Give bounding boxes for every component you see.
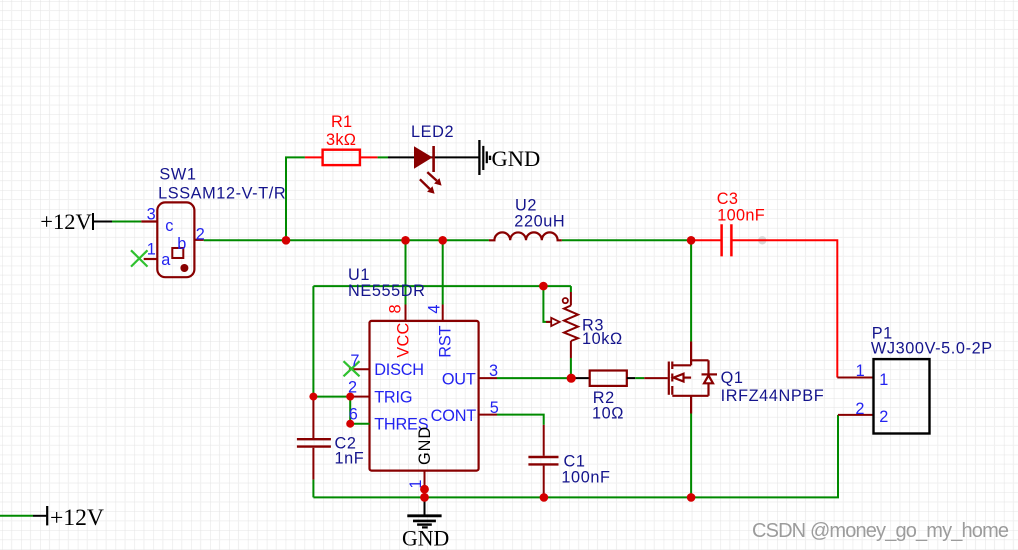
wire Q1 source to bottom bus <box>690 414 692 498</box>
net port +12V (top-left) bar <box>92 213 94 230</box>
wire green to SW1 pin 3 <box>112 221 141 223</box>
no-connect X on U1 pin 7 <box>344 361 360 376</box>
capacitor C1 <box>528 457 558 464</box>
svg-text:1nF: 1nF <box>335 450 365 468</box>
junction node at Q1 drain riser <box>687 236 696 245</box>
U1 pin 7 DISCH stub <box>349 368 370 370</box>
net port +12V (bottom-left) bar <box>46 506 48 525</box>
wire black from +12V port <box>92 221 112 223</box>
ground GND (right of LED, vertical-bar style) <box>479 140 490 175</box>
svg-text:2: 2 <box>855 400 864 418</box>
connector P1 body <box>874 359 930 433</box>
wire black into R2 <box>576 377 590 379</box>
junction node at OUT / R3 bottom <box>567 374 576 383</box>
svg-text:100nF: 100nF <box>561 469 610 487</box>
svg-text:GND: GND <box>402 526 449 550</box>
U1 pin 3 OUT stub <box>479 377 497 379</box>
svg-text:c: c <box>165 217 173 235</box>
junction node at TRIG pin <box>346 393 354 401</box>
svg-text:3kΩ: 3kΩ <box>326 131 356 149</box>
wire CONT to C1 <box>497 415 544 425</box>
U1 pin 1 GND stub <box>424 471 426 490</box>
potentiometer R3 zigzag <box>564 306 578 342</box>
resistor R2 <box>590 371 627 386</box>
svg-text:3: 3 <box>147 206 156 224</box>
svg-text:Q1: Q1 <box>721 369 744 387</box>
junction node at C1 bottom <box>540 493 549 502</box>
svg-text:b: b <box>177 235 186 253</box>
wire green to TRIG pin <box>313 396 353 398</box>
wire Q1 drain riser to bus <box>690 240 692 341</box>
svg-text:220uH: 220uH <box>514 212 565 230</box>
wire main +12V bus (y=240) <box>204 239 691 241</box>
wire TRIG to THRES tie <box>350 397 369 424</box>
svg-text:4: 4 <box>426 305 444 314</box>
junction node at left riser / TRIG <box>309 393 317 401</box>
SW1 orientation dot <box>180 264 188 272</box>
inductor U2 <box>489 232 562 240</box>
svg-text:+12V: +12V <box>50 505 104 531</box>
svg-text:a: a <box>161 251 171 269</box>
switch SW1 body <box>141 202 203 277</box>
transistor Q1 N-MOSFET <box>669 342 717 414</box>
svg-text:R1: R1 <box>331 113 352 131</box>
wire OUT to R2 node <box>497 377 576 379</box>
wire P1 pin 2 stub <box>838 414 874 416</box>
potentiometer R3 wiper arrow <box>546 321 552 323</box>
junction node at U1 pin 1 end <box>420 485 429 494</box>
svg-text:10kΩ: 10kΩ <box>582 330 623 348</box>
svg-text:NE555DR: NE555DR <box>348 282 426 300</box>
svg-text:8: 8 <box>387 304 405 313</box>
svg-text:10Ω: 10Ω <box>592 404 624 422</box>
svg-text:LED2: LED2 <box>411 123 454 141</box>
ground GND bottom symbol stem <box>424 497 426 515</box>
node gray point on red wire <box>758 236 766 244</box>
R3 terminal circle marker <box>563 298 568 303</box>
wire into C2 top <box>312 400 314 438</box>
svg-text:VCC: VCC <box>395 322 413 357</box>
C1 top lead <box>543 425 545 456</box>
wire green segment after R1 <box>378 156 388 158</box>
svg-text:RST: RST <box>437 325 455 357</box>
wire red stub out of R1 <box>360 156 378 158</box>
wire red stub into R1 <box>305 156 323 158</box>
junction node at SW1 pin2 / R1 riser <box>282 236 291 245</box>
junction node at pin 4 riser <box>438 236 447 245</box>
svg-text:2: 2 <box>879 408 888 426</box>
svg-text:1: 1 <box>879 371 888 389</box>
svg-text:IRFZ44NPBF: IRFZ44NPBF <box>721 387 825 405</box>
wire Q1 gate stub <box>644 377 668 379</box>
ground GND bottom symbol bars <box>407 516 441 528</box>
svg-text:GND: GND <box>492 146 541 171</box>
C1 bottom lead <box>543 466 545 498</box>
wire left riser down to TRIG <box>312 286 314 400</box>
wire bottom ground bus <box>313 415 838 498</box>
wire red from C3 down to P1 pin 1 <box>731 240 837 377</box>
svg-text:C3: C3 <box>717 190 738 208</box>
wire riser to U1 pin 8 <box>405 240 407 304</box>
U1 pin 2 TRIG stub <box>354 396 370 398</box>
svg-text:+12V: +12V <box>40 209 91 234</box>
U1 pin 4 stub <box>442 305 444 321</box>
svg-text:TRIG: TRIG <box>374 388 412 406</box>
R3 bottom lead <box>570 341 572 358</box>
wire R3 wiper branch <box>543 286 551 322</box>
junction node at R3 wiper branch <box>539 282 548 291</box>
capacitor C3 (selected, red) <box>722 224 732 256</box>
wire riser to U1 pin 4 <box>442 240 444 304</box>
wire black after R2 <box>627 377 635 379</box>
svg-text:GND: GND <box>416 426 434 465</box>
potentiometer R3 top lead <box>570 292 572 306</box>
C2 bottom lead <box>312 448 314 480</box>
junction node at THRES pin <box>346 420 354 428</box>
wire green after R2 <box>635 377 644 379</box>
wire riser to R1 <box>286 157 305 240</box>
wire black to +12V port <box>33 515 46 517</box>
wire green into R3 top <box>570 286 572 292</box>
svg-text:2: 2 <box>196 225 205 243</box>
wire P1 pin 1 stub <box>837 377 873 379</box>
junction node at Q1 source / bottom bus <box>687 493 696 502</box>
capacitor C2 <box>297 439 331 446</box>
svg-text:LSSAM12-V-T/R: LSSAM12-V-T/R <box>158 185 286 203</box>
svg-text:WJ300V-5.0-2P: WJ300V-5.0-2P <box>871 339 993 357</box>
wire black to LED2 and GND <box>388 156 479 158</box>
junction node at U1 pin 1 / bottom bus <box>420 493 429 502</box>
svg-text:CSDN @money_go_my_home: CSDN @money_go_my_home <box>752 520 1009 542</box>
U1 pin 5 CONT stub <box>479 414 497 416</box>
resistor R1 (selected, red) <box>323 150 360 165</box>
timer U1 NE555DR body <box>370 321 479 471</box>
LED LED2 <box>414 146 442 194</box>
svg-text:1: 1 <box>147 240 156 258</box>
svg-text:1: 1 <box>856 362 865 380</box>
junction node at pin 8 riser <box>401 236 410 245</box>
svg-text:DISCH: DISCH <box>374 361 424 379</box>
svg-text:CONT: CONT <box>431 407 477 425</box>
wire red from bus to C3 <box>691 239 722 241</box>
wire VCC branch (y=286) to R3 <box>313 285 571 287</box>
svg-text:100nF: 100nF <box>717 206 765 224</box>
svg-text:SW1: SW1 <box>159 166 196 184</box>
no-connect X on SW1 pin 1 <box>131 250 148 266</box>
wire green from R3 to OUT node <box>570 358 572 378</box>
svg-text:OUT: OUT <box>442 371 476 389</box>
wire green C2 to bottom bus <box>312 480 314 498</box>
wire green bottom-left +12V <box>0 515 33 517</box>
svg-text:3: 3 <box>489 362 498 380</box>
U1 pin 8 stub <box>405 305 407 321</box>
svg-text:7: 7 <box>350 352 359 370</box>
